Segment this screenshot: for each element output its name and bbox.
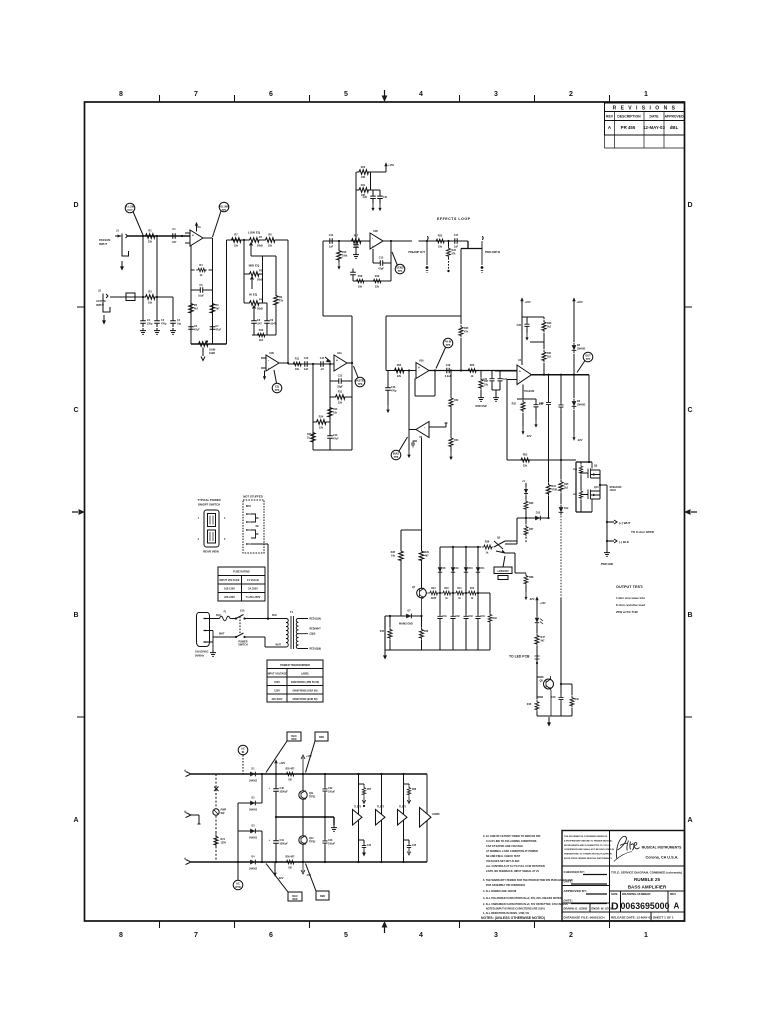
svg-text:R54: R54	[454, 439, 459, 442]
svg-text:R50: R50	[573, 469, 578, 471]
svg-text:Q9: Q9	[594, 465, 598, 468]
transistor Q5 bias	[494, 537, 517, 554]
svg-text:LDR1000: LDR1000	[497, 569, 509, 573]
svg-text:VOLTAGES SET NOT ALIGN: VOLTAGES SET NOT ALIGN	[486, 860, 519, 863]
mosfet Q9	[581, 462, 600, 478]
svg-text:PASSIVE: PASSIVE	[99, 238, 111, 242]
capacitor C9	[264, 303, 276, 335]
capacitor C24	[492, 371, 508, 402]
svg-text:+: +	[268, 367, 270, 371]
bias ladder top wire	[440, 546, 481, 548]
thermal sense drop	[558, 375, 569, 598]
svg-text:C12: C12	[338, 375, 343, 378]
svg-text:Corona, CA U.S.A.: Corona, CA U.S.A.	[646, 856, 679, 860]
regulator Q11	[299, 755, 316, 877]
svg-text:1W: 1W	[288, 780, 292, 782]
svg-text:J2: J2	[98, 289, 101, 293]
svg-text:4: 4	[419, 932, 423, 939]
svg-text:.047: .047	[257, 322, 262, 325]
svg-text:R51: R51	[573, 494, 578, 496]
svg-text:10kB: 10kB	[209, 352, 215, 355]
gang dashed link	[239, 617, 241, 635]
svg-text:8: 8	[119, 932, 123, 939]
svg-text:WHT: WHT	[219, 633, 225, 636]
resistor R44	[428, 587, 439, 600]
op-amp U1B	[261, 352, 288, 380]
capacitor C21	[377, 190, 388, 211]
svg-text:5: 5	[344, 932, 348, 939]
svg-text:SW: SW	[221, 812, 226, 815]
svg-text:R12: R12	[338, 391, 343, 394]
svg-text:R52: R52	[454, 399, 459, 402]
center mark arrow left	[72, 511, 78, 513]
svg-text:47uF: 47uF	[333, 437, 339, 440]
svg-text:22k: 22k	[375, 285, 380, 288]
wire fb bottom	[313, 449, 352, 451]
svg-text:4k7: 4k7	[216, 307, 221, 310]
svg-text:TO LED PCB: TO LED PCB	[509, 655, 530, 659]
svg-text:REV: REV	[670, 892, 676, 896]
svg-text:+22V: +22V	[540, 602, 546, 605]
resistor R25 drop from FX node	[459, 316, 469, 371]
resistor R18	[354, 275, 365, 289]
center mark arrow bottom	[384, 924, 386, 933]
svg-text:3: 3	[494, 932, 498, 939]
wire feedback right leg	[212, 238, 214, 344]
svg-text:TDA2030: TDA2030	[524, 390, 535, 393]
svg-text:1k: 1k	[471, 375, 474, 378]
rail resistor R56	[284, 856, 295, 870]
power arrow -V	[407, 434, 410, 458]
svg-text:2: 2	[569, 932, 573, 939]
passive input jack J1	[99, 229, 129, 271]
capacitor C13	[327, 422, 339, 450]
svg-text:C15: C15	[379, 257, 384, 260]
svg-text:B: B	[73, 612, 78, 619]
svg-text:4k7: 4k7	[194, 307, 199, 310]
power ground	[601, 550, 614, 566]
svg-text:D10: D10	[469, 568, 474, 570]
svg-text:15k: 15k	[268, 245, 273, 248]
mains neutral wire	[213, 637, 286, 647]
svg-text:EFFECTS LOOP: EFFECTS LOOP	[437, 217, 471, 221]
svg-text:47k: 47k	[464, 330, 469, 333]
svg-text:TP3: TP3	[358, 382, 363, 386]
capacitor C5 rung	[191, 284, 213, 298]
resistor R20	[357, 166, 371, 179]
wire main output node	[532, 374, 590, 376]
svg-text:2k2: 2k2	[259, 339, 264, 342]
svg-text:A: A	[687, 817, 692, 824]
svg-text:10uF: 10uF	[198, 294, 204, 297]
svg-text:2k2: 2k2	[564, 486, 569, 489]
low EQ pot P2	[246, 231, 263, 257]
resistor R17	[349, 235, 363, 249]
svg-text:1uF: 1uF	[454, 245, 459, 248]
capacitor C20	[363, 190, 376, 211]
svg-text:4: 4	[224, 517, 226, 520]
preamp supply rail feed	[355, 172, 357, 243]
svg-text:+V: +V	[522, 480, 525, 483]
resistor R27 DPM	[475, 371, 489, 409]
svg-text:DATABASE FILE: 069513CH: DATABASE FILE: 069513CH	[564, 916, 606, 920]
svg-text:R40: R40	[444, 587, 449, 590]
svg-text:(2)(5): (2)(5)	[310, 633, 316, 636]
svg-text:F1 VALUE: F1 VALUE	[247, 579, 259, 582]
svg-text:JACK: JACK	[610, 489, 617, 492]
svg-text:R57: R57	[367, 789, 372, 791]
svg-text:SHEET 1 OF 1: SHEET 1 OF 1	[653, 916, 674, 920]
svg-text:C21: C21	[383, 196, 388, 199]
svg-text:1 kHz sine wave into: 1 kHz sine wave into	[616, 596, 645, 600]
svg-text:R43: R43	[493, 617, 498, 620]
svg-text:DATE: DATE	[650, 115, 660, 119]
svg-text:1: 1	[644, 91, 648, 98]
notes text block	[483, 835, 573, 915]
svg-text:U2A: U2A	[337, 352, 342, 355]
svg-text:Q10: Q10	[594, 486, 599, 489]
svg-text:D13: D13	[536, 512, 541, 515]
svg-text:U3A: U3A	[419, 360, 424, 363]
svg-text:-: -	[268, 358, 269, 362]
supply column 1	[357, 773, 359, 863]
resistor R16	[337, 241, 348, 270]
svg-text:2k2: 2k2	[547, 325, 552, 328]
op-amp U5 bias servo	[409, 422, 448, 440]
svg-text:R58: R58	[412, 789, 417, 791]
svg-text:RED: RED	[319, 736, 324, 739]
resistor R26	[466, 364, 478, 378]
svg-text:U2B: U2B	[373, 230, 378, 233]
reg symbol U7	[376, 806, 386, 826]
resistor R12 rung	[330, 391, 352, 405]
svg-text:10k: 10k	[354, 246, 359, 249]
output test note	[616, 585, 645, 614]
svg-text:-22V: -22V	[529, 597, 535, 601]
svg-text:2: 2	[198, 538, 200, 541]
svg-text:3: 3	[224, 538, 226, 541]
svg-text:+: +	[418, 366, 420, 370]
svg-text:47k: 47k	[279, 299, 284, 302]
wire gain pot bottom	[191, 343, 227, 345]
svg-text:R1: R1	[148, 230, 152, 233]
capacitor C1	[169, 228, 179, 244]
svg-text:D7: D7	[407, 610, 411, 613]
svg-text:PCB ASSEMBLY P/N 0069500000: PCB ASSEMBLY P/N 0069500000	[486, 884, 526, 887]
svg-text:R19: R19	[375, 275, 380, 278]
svg-text:CAPS, NO FEEDBACK, INPUT SIGNA: CAPS, NO FEEDBACK, INPUT SIGNAL AT 2V	[486, 870, 539, 873]
power feed +22V	[520, 297, 544, 365]
wire U5 input drop	[408, 371, 410, 435]
svg-text:R45: R45	[380, 630, 385, 633]
svg-text:R44: R44	[431, 587, 436, 590]
resistor R14 rung	[313, 416, 330, 430]
svg-text:1N4002: 1N4002	[249, 780, 258, 783]
switch contact hot	[235, 610, 246, 620]
svg-text:R22: R22	[438, 235, 443, 238]
rectifier D2	[238, 798, 262, 832]
psu bottom rail	[191, 861, 427, 863]
svg-text:C26: C26	[517, 324, 522, 327]
capacitor C22	[353, 241, 359, 258]
reg symbol U9	[420, 808, 441, 828]
svg-text:4k7: 4k7	[425, 554, 430, 557]
svg-text:MID EQ: MID EQ	[249, 264, 260, 268]
supply column 2	[380, 773, 382, 863]
svg-text:D: D	[611, 901, 619, 913]
resistor R10	[255, 329, 266, 342]
svg-text:50kB: 50kB	[257, 244, 263, 247]
svg-text:C35: C35	[551, 697, 556, 699]
wire supply joins	[371, 172, 387, 190]
zone ticks bottom	[160, 921, 610, 928]
svg-text:+: +	[372, 245, 374, 249]
wire FX return drop	[460, 249, 462, 317]
svg-text:C33: C33	[469, 616, 474, 618]
svg-text:10k: 10k	[333, 411, 338, 414]
svg-text:C45: C45	[412, 844, 417, 847]
speaker wire white	[606, 520, 631, 525]
capacitor C16 end	[350, 269, 356, 282]
balloon A9 mains callout	[238, 745, 248, 774]
svg-text:SIZE: SIZE	[611, 892, 618, 896]
svg-text:RED/WHT: RED/WHT	[310, 628, 322, 631]
svg-text:6: 6	[269, 932, 273, 939]
svg-text:470p: 470p	[391, 389, 397, 392]
resistor R21	[357, 184, 371, 197]
svg-text:ON/OFF SWITCH: ON/OFF SWITCH	[198, 503, 220, 507]
jog resistor R57	[359, 784, 372, 807]
wire EQ output drop	[287, 240, 289, 363]
svg-text:220R: 220R	[431, 598, 437, 600]
svg-text:PR 455: PR 455	[621, 125, 636, 130]
center tap wire	[276, 817, 337, 831]
svg-text:C1: C1	[172, 228, 176, 231]
capacitor C19	[443, 364, 453, 378]
jog cap C44	[359, 840, 372, 857]
svg-text:D8: D8	[443, 568, 447, 570]
svg-text:TL072: TL072	[399, 806, 407, 809]
proprietary notice text	[564, 835, 614, 860]
svg-text:10R: 10R	[361, 176, 366, 179]
capacitor C11	[317, 357, 327, 371]
svg-text:NE AND FINAL CHECK TEST: NE AND FINAL CHECK TEST	[486, 855, 521, 858]
svg-text:RTN: RTN	[235, 885, 240, 889]
svg-text:10k: 10k	[438, 245, 443, 248]
svg-text:+: +	[519, 369, 521, 373]
capacitor C10	[301, 357, 311, 371]
wire FX input	[323, 240, 370, 242]
resistor R46	[419, 616, 429, 650]
svg-text:TL072: TL072	[354, 806, 362, 809]
rail resistor R55	[284, 768, 295, 782]
resistor R22	[434, 235, 446, 249]
wire FX return	[419, 240, 469, 242]
wire driver bottom	[537, 715, 572, 717]
zone labels top	[119, 91, 648, 98]
ladder leg 4	[475, 547, 485, 650]
svg-text:D12: D12	[564, 507, 569, 510]
svg-text:100-120V: 100-120V	[224, 588, 235, 591]
svg-text:1N4002: 1N4002	[249, 868, 258, 871]
svg-text:REV: REV	[606, 115, 614, 119]
svg-text:R37: R37	[529, 528, 534, 531]
master volume wiper arrow	[325, 357, 331, 362]
svg-text:TP2: TP2	[275, 388, 280, 392]
transformer T1	[276, 610, 322, 651]
capacitor C15 rung	[377, 257, 392, 271]
hi EQ pot P4	[244, 293, 267, 318]
jack switch box	[126, 293, 135, 301]
svg-text:TP1: TP1	[222, 208, 227, 212]
svg-text:1k: 1k	[486, 551, 489, 554]
ground	[154, 328, 160, 334]
svg-text:APPROVED: APPROVED	[664, 115, 684, 119]
resistor R9	[274, 293, 284, 307]
mid EQ pot P3	[244, 264, 263, 290]
balloon A5 callout	[392, 252, 405, 274]
svg-text:15k: 15k	[234, 245, 239, 248]
svg-text:-22V: -22V	[577, 438, 583, 442]
svg-text:R41: R41	[457, 587, 462, 590]
wire to FX send	[323, 241, 352, 316]
node	[243, 239, 245, 241]
svg-text:R18: R18	[358, 275, 363, 278]
svg-text:DATE:: DATE:	[564, 899, 573, 903]
svg-text:5. THE WARRANTY PERIOD FOR THE: 5. THE WARRANTY PERIOD FOR THE PRODUCTIO…	[483, 879, 573, 882]
svg-text:R42: R42	[470, 587, 475, 590]
svg-text:DRAWING NUMBER: DRAWING NUMBER	[622, 892, 651, 896]
zone labels left	[73, 202, 78, 824]
resistor R45	[380, 616, 392, 650]
wire color label RED	[306, 732, 329, 773]
balloon A1 input callout	[125, 203, 143, 235]
capacitor C14	[326, 234, 336, 248]
capacitor C6	[188, 323, 200, 333]
svg-text:6: 6	[269, 91, 273, 98]
svg-text:INPUT VOLTAGE: INPUT VOLTAGE	[220, 579, 240, 582]
svg-text:5: 5	[344, 91, 348, 98]
LDR label box	[494, 556, 512, 580]
wire EQ bottom	[252, 334, 276, 336]
power flag +15V	[384, 162, 394, 172]
svg-text:1N4002: 1N4002	[249, 809, 258, 812]
balloon A4 callout	[354, 366, 366, 387]
svg-text:50kB: 50kB	[257, 307, 263, 310]
zone ticks top	[160, 95, 610, 102]
svg-text:R17: R17	[354, 235, 359, 238]
svg-text:0069745000 (USA 60): 0069745000 (USA 60)	[293, 690, 318, 693]
svg-text:TO 8 ohm SPKR: TO 8 ohm SPKR	[631, 530, 655, 534]
svg-text:C11: C11	[320, 357, 325, 360]
svg-text:BASS AMPLIFIER: BASS AMPLIFIER	[628, 885, 667, 890]
svg-text:T1.25A 250V: T1.25A 250V	[246, 596, 261, 599]
resistor R51	[573, 489, 583, 512]
svg-text:TIP32: TIP32	[309, 840, 316, 843]
wire LED net	[561, 598, 572, 684]
speaker wire black	[606, 539, 630, 544]
balloon A6 callout	[436, 338, 453, 368]
svg-text:2. ALL UNMARKED CAPACITORS IN: 2. ALL UNMARKED CAPACITORS IN uF, 50V OR…	[483, 903, 568, 906]
svg-text:47uF: 47uF	[216, 328, 222, 331]
svg-text:C20: C20	[363, 196, 368, 199]
svg-text:A: A	[608, 125, 612, 130]
wire U2A fb leg	[313, 364, 330, 450]
svg-text:1k: 1k	[458, 598, 461, 600]
filter cap C41	[268, 817, 288, 862]
capacitor C27	[533, 399, 544, 428]
svg-text:+: +	[268, 787, 270, 790]
svg-text:25W at 5% THD: 25W at 5% THD	[616, 610, 639, 614]
supply column 4 right end	[426, 774, 428, 862]
zone ticks left	[77, 307, 84, 717]
svg-text:U4: U4	[518, 359, 522, 362]
resistor R13	[328, 405, 338, 419]
svg-text:2: 2	[569, 91, 573, 98]
ground	[383, 650, 387, 660]
svg-text:100uF: 100uF	[328, 790, 335, 793]
svg-text:RED: RED	[320, 895, 325, 898]
feedback divider column	[449, 369, 459, 460]
svg-text:C34: C34	[481, 615, 486, 618]
svg-text:PREAMP OUT: PREAMP OUT	[408, 251, 425, 254]
svg-text:A: A	[674, 902, 680, 911]
jog cap C45	[404, 840, 417, 855]
svg-text:APPROVED BY:: APPROVED BY:	[564, 889, 587, 893]
svg-text:OUTPUT TEST:: OUTPUT TEST:	[616, 585, 643, 589]
svg-text:DRAWN: D. LEWIS: DRAWN: D. LEWIS	[564, 907, 588, 911]
capacitor C35	[551, 684, 563, 716]
svg-text:3300uF: 3300uF	[280, 842, 289, 845]
svg-text:POWER TRANSFORMER: POWER TRANSFORMER	[280, 664, 310, 667]
wire bootstrap stub	[530, 341, 544, 343]
svg-text:7: 7	[194, 91, 198, 98]
svg-text:PWR AMP IN: PWR AMP IN	[485, 251, 500, 254]
capacitor C3	[154, 317, 167, 327]
diode D7	[404, 610, 415, 619]
wire EQ top	[227, 239, 247, 241]
resistor R5	[189, 301, 199, 315]
svg-text:R10: R10	[259, 329, 264, 332]
svg-text:LABEL: LABEL	[301, 673, 310, 676]
svg-text:AT NOMINAL LOAD CONDITION AT P: AT NOMINAL LOAD CONDITION AT POWER	[486, 850, 538, 853]
preamp out jack J3	[408, 237, 428, 273]
AC inlet	[195, 613, 216, 658]
flag A bottom	[184, 857, 191, 865]
wire EQ feedback leg	[275, 256, 277, 335]
resistor R1	[143, 230, 157, 244]
svg-text:R24: R24	[397, 364, 402, 367]
svg-text:-: -	[424, 425, 425, 429]
capacitor C18	[385, 371, 397, 414]
svg-text:R3: R3	[148, 291, 152, 294]
svg-text:120V: 120V	[274, 690, 280, 693]
svg-text:R20: R20	[361, 166, 366, 169]
svg-text:10k: 10k	[358, 285, 363, 288]
wire branch right	[172, 297, 174, 317]
svg-text:INPUT: INPUT	[99, 242, 107, 246]
resistor R48	[527, 677, 543, 716]
svg-text:0069747000 (EUR 50): 0069747000 (EUR 50)	[292, 698, 317, 701]
svg-text:TP4: TP4	[398, 269, 403, 273]
resistor R3	[143, 291, 157, 305]
power transformer table	[267, 660, 323, 702]
svg-text:3300uF: 3300uF	[280, 790, 289, 793]
svg-text:2A 250V: 2A 250V	[248, 588, 258, 591]
svg-text:3: 3	[494, 91, 498, 98]
svg-text:TITLE: SERVICE DIAGRAM, COMBIN: TITLE: SERVICE DIAGRAM, COMBINED (schema…	[611, 871, 682, 875]
svg-text:22k: 22k	[397, 375, 402, 378]
